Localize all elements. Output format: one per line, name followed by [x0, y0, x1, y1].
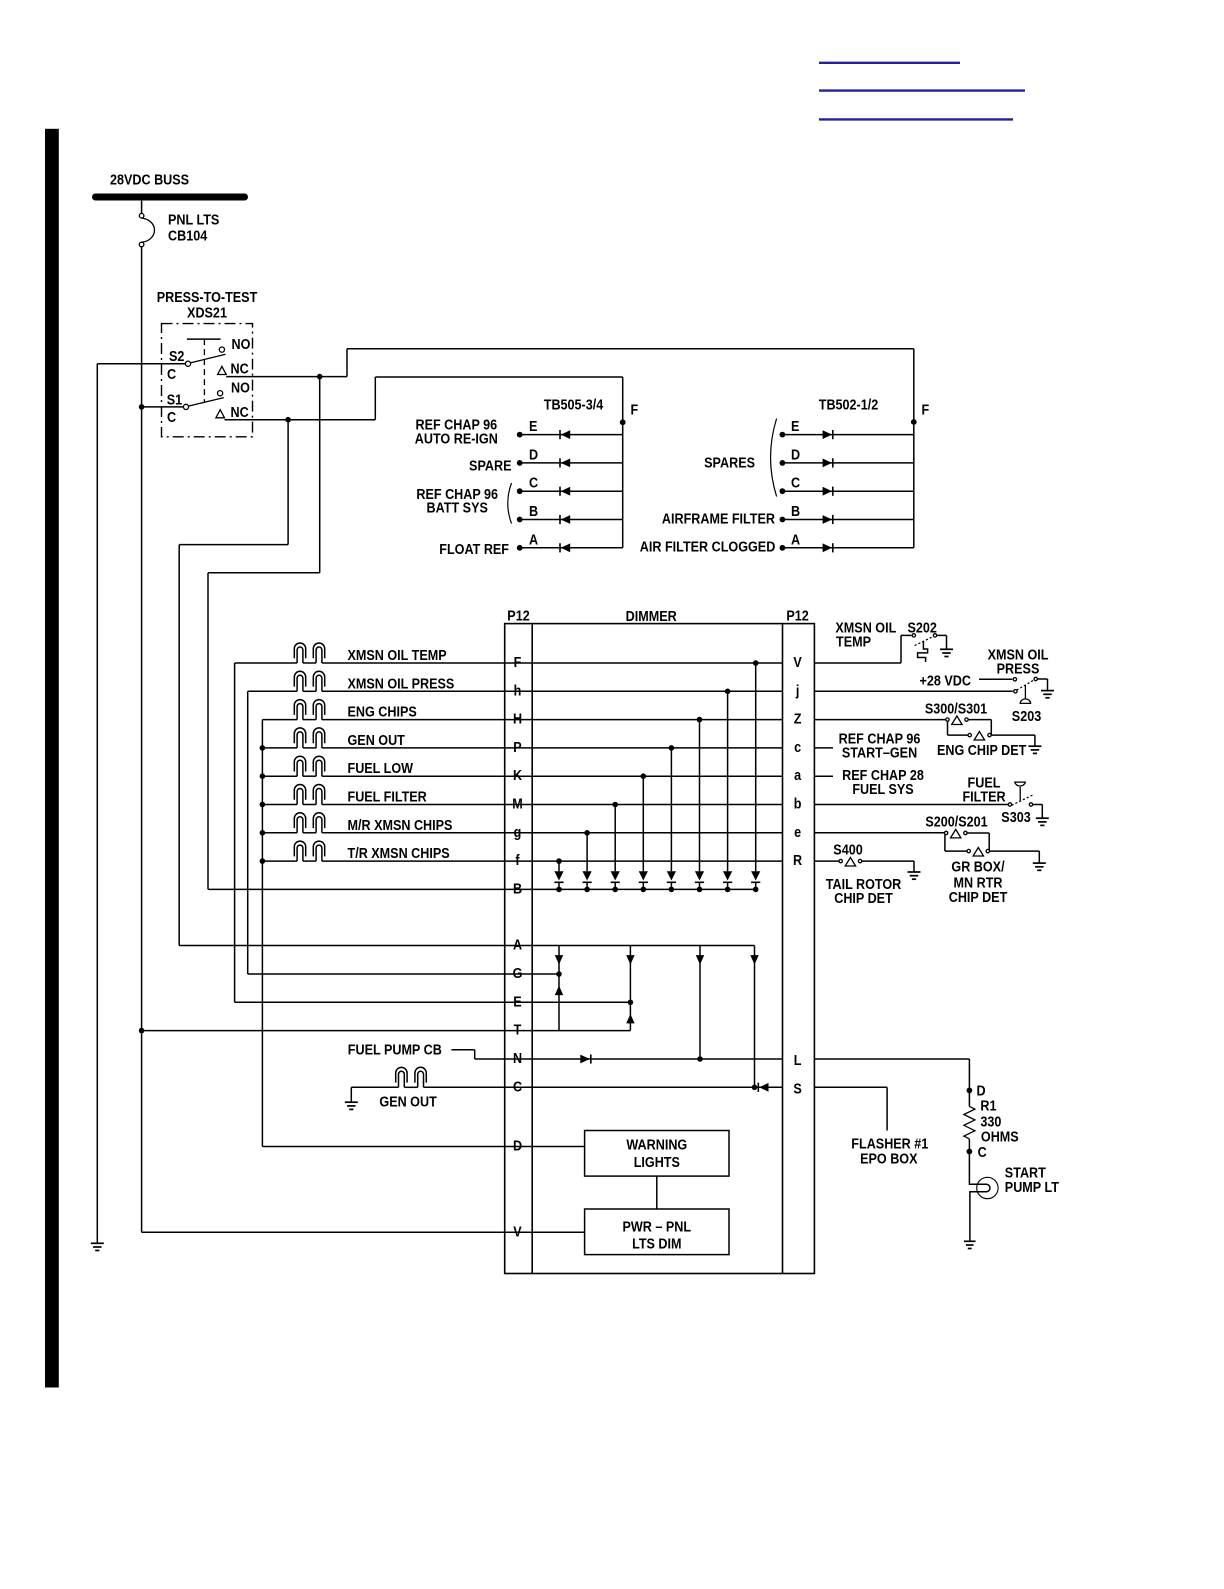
diode CR (TB505 row E): [560, 430, 570, 439]
svg-text:P12: P12: [786, 606, 809, 623]
svg-text:FUEL FILTER: FUEL FILTER: [348, 787, 427, 804]
wire: S2 common from left bus: [97, 363, 185, 365]
terminal C (TB502): [780, 474, 914, 494]
diode CR (row N): [580, 1054, 591, 1063]
mechanical link bar: [187, 338, 221, 340]
svg-text:GEN OUT: GEN OUT: [348, 731, 406, 748]
svg-text:D: D: [791, 445, 800, 462]
svg-text:CB104: CB104: [168, 227, 207, 244]
svg-text:SPARES: SPARES: [704, 453, 755, 470]
svg-text:WARNING: WARNING: [626, 1135, 687, 1152]
wire: pin b to S303: [814, 804, 1008, 806]
svg-text:+28 VDC: +28 VDC: [920, 671, 971, 688]
wire: CB104 down to S1 common, T pin and V pin: [139, 247, 145, 1233]
svg-text:F: F: [514, 653, 522, 670]
ground (GEN OUT): [345, 1087, 358, 1109]
wire+ground (S400): [862, 861, 921, 879]
indicator lamps GEN OUT: [294, 728, 324, 748]
svg-text:V: V: [793, 653, 802, 670]
svg-text:FLOAT REF: FLOAT REF: [439, 540, 509, 557]
box PWR - PNL LTS DIM: [585, 1209, 729, 1255]
svg-text:e: e: [794, 823, 801, 840]
svg-text:FUEL SYS: FUEL SYS: [852, 780, 913, 797]
label PRESS-TO-TEST XDS21: [157, 288, 258, 321]
circuit breaker CB104: [139, 201, 154, 247]
terminal D (TB502): [780, 445, 914, 465]
S2 NC contact (triangle): [218, 366, 227, 374]
svg-text:NO: NO: [231, 378, 250, 395]
svg-text:NC: NC: [231, 403, 249, 420]
brace (SPARES rows E,D,C): [771, 419, 777, 497]
wire: lamp row K (FUEL LOW): [260, 773, 783, 779]
label REF CHAP 96 START-GEN: [839, 729, 921, 760]
svg-text:GR BOX/: GR BOX/: [951, 857, 1004, 874]
diode leg from row M to bus B: [611, 802, 620, 893]
indicator lamps FUEL FILTER: [294, 785, 324, 805]
svg-text:GEN OUT: GEN OUT: [379, 1093, 437, 1110]
wire: pin a stub: [814, 775, 833, 777]
svg-text:K: K: [513, 766, 522, 783]
node C (flasher): [967, 1143, 987, 1160]
node F (TB502): [911, 400, 929, 424]
svg-text:C: C: [529, 474, 538, 491]
terminal B (TB505): [517, 502, 623, 522]
diode CR (TB505 row C): [560, 487, 570, 496]
svg-text:FILTER: FILTER: [962, 787, 1005, 804]
svg-text:C: C: [167, 365, 176, 382]
resistor R1 330 OHMS: [964, 1106, 975, 1138]
svg-text:LIGHTS: LIGHTS: [634, 1153, 680, 1170]
wire: row G: [248, 973, 559, 975]
indicator lamps XMSN OIL PRESS: [294, 671, 324, 691]
svg-text:D: D: [529, 445, 538, 462]
svg-text:S303: S303: [1001, 808, 1031, 825]
label REF CHAP 96 BATT SYS: [416, 485, 498, 516]
svg-text:f: f: [515, 851, 520, 868]
svg-text:B: B: [513, 879, 522, 896]
svg-text:S: S: [793, 1079, 801, 1096]
svg-text:NC: NC: [231, 359, 249, 376]
label REF CHAP 96 AUTO RE-IGN: [415, 415, 498, 446]
svg-text:Z: Z: [794, 710, 802, 727]
indicator lamps M/R XMSN CHIPS: [294, 813, 324, 833]
svg-text:LTS DIM: LTS DIM: [632, 1234, 681, 1251]
wire+ground (S202): [937, 635, 953, 656]
S1 NC contact (triangle): [216, 410, 225, 418]
hyperlink underline 1: [819, 62, 960, 64]
wire: S200 to junction: [967, 833, 989, 851]
wire: warning lights to pwr-pnl dim: [656, 1176, 658, 1209]
wire: row A: [179, 945, 754, 947]
svg-text:NO: NO: [232, 335, 251, 352]
svg-text:N: N: [513, 1049, 522, 1066]
svg-text:C: C: [513, 1077, 522, 1094]
terminal A (TB505): [517, 530, 623, 550]
diode CR (TB502 row B): [823, 515, 833, 524]
svg-text:FUEL LOW: FUEL LOW: [348, 759, 414, 776]
svg-text:XDS21: XDS21: [187, 303, 227, 320]
wire: lamp row F (XMSN OIL TEMP): [235, 662, 783, 664]
svg-text:FUEL PUMP CB: FUEL PUMP CB: [348, 1040, 442, 1057]
28VDC bus bar: [96, 194, 245, 201]
chip detector S301: [968, 732, 991, 741]
wire: TB502 spine: [913, 349, 915, 548]
switch S2 (upper pole): [185, 347, 225, 366]
wire: left bus down to ground: [96, 364, 98, 1243]
svg-text:C: C: [791, 474, 800, 491]
dimmer assembly box: [505, 624, 815, 1274]
svg-text:A: A: [791, 530, 800, 547]
indicator lamps GEN OUT: [396, 1067, 427, 1087]
wire: pin e to S200: [814, 832, 944, 834]
wire: lamp row h (XMSN OIL PRESS): [248, 690, 783, 692]
svg-text:S1: S1: [167, 390, 183, 407]
wire: pin S to flasher: [814, 1087, 887, 1130]
wire: S301 branch: [948, 721, 969, 735]
svg-text:ENG CHIPS: ENG CHIPS: [348, 703, 417, 720]
wire: row F to pin E link: [234, 663, 236, 1002]
node F (TB505): [620, 400, 638, 425]
indicator lamps ENG CHIPS: [294, 700, 324, 720]
wire: S300 to junction: [968, 720, 991, 736]
diode leg from row H to bus B: [695, 717, 704, 892]
svg-text:AUTO RE-IGN: AUTO RE-IGN: [415, 429, 498, 446]
wire: row V: [142, 1231, 585, 1233]
svg-text:F: F: [631, 400, 639, 417]
diode leg from row g to bus B: [583, 830, 592, 892]
svg-text:PUMP LT: PUMP LT: [1005, 1178, 1060, 1195]
label GR BOX/ MN RTR CHIP DET: [949, 857, 1008, 905]
svg-text:XMSN OIL TEMP: XMSN OIL TEMP: [348, 646, 447, 663]
svg-text:g: g: [514, 823, 522, 840]
svg-text:DIMMER: DIMMER: [626, 607, 677, 624]
svg-text:M/R XMSN CHIPS: M/R XMSN CHIPS: [348, 816, 453, 833]
svg-text:TB505-3/4: TB505-3/4: [544, 395, 604, 412]
svg-text:TB502-1/2: TB502-1/2: [819, 395, 879, 412]
indicator lamps T/R XMSN CHIPS: [294, 841, 324, 861]
indicator lamps XMSN OIL TEMP: [294, 643, 324, 663]
indicator lamps FUEL LOW: [294, 756, 324, 776]
terminal E (TB505): [517, 417, 623, 437]
svg-text:V: V: [513, 1222, 522, 1239]
switch S303 (pressure): [1008, 782, 1033, 806]
svg-text:PNL LTS: PNL LTS: [168, 210, 219, 227]
diode CR (TB502 row C): [823, 487, 833, 496]
chip detector S200: [944, 829, 967, 838]
wire+ground (GR BOX CHIP DET): [990, 851, 1046, 870]
svg-text:PWR – PNL: PWR – PNL: [623, 1217, 692, 1234]
svg-text:CHIP DET: CHIP DET: [949, 888, 1008, 905]
svg-text:S200/S201: S200/S201: [925, 812, 988, 829]
ground (start pump light): [964, 1240, 976, 1242]
svg-text:H: H: [513, 710, 522, 727]
diode leg from row P to bus B: [667, 745, 676, 892]
svg-text:E: E: [529, 417, 537, 434]
svg-text:T/R XMSN CHIPS: T/R XMSN CHIPS: [348, 844, 450, 861]
svg-text:TEMP: TEMP: [836, 632, 871, 649]
svg-text:T: T: [514, 1021, 522, 1038]
svg-text:A: A: [529, 530, 538, 547]
wire: row C (GEN OUT to pin S): [351, 1086, 782, 1088]
wire: row E: [235, 1001, 631, 1003]
label FUEL FILTER (S303): [962, 773, 1005, 804]
diode CR (row C): [758, 1083, 768, 1092]
wire: S1 NC branch down to dimmer pin A: [179, 420, 288, 946]
svg-text:PRESS: PRESS: [997, 659, 1040, 676]
wire: pin V to S202: [814, 635, 911, 663]
svg-text:BATT SYS: BATT SYS: [427, 498, 488, 515]
box WARNING LIGHTS: [585, 1131, 729, 1177]
wire: pin R to S400: [814, 860, 839, 862]
wire: lamp row M (FUEL FILTER): [260, 802, 783, 808]
brace (BATT SYS rows C,B): [508, 483, 512, 524]
chip detector S400: [839, 858, 862, 867]
ground (left bus): [91, 1242, 104, 1244]
wire: lamp row P (GEN OUT): [260, 745, 783, 751]
diode CR (TB505 row B): [560, 515, 570, 524]
wire: S2 NC to TB502 F: [226, 349, 914, 380]
diode CR (TB502 row E): [823, 430, 833, 439]
internal leg A-N (with arrow): [696, 946, 704, 1062]
chip detector S300: [946, 716, 968, 725]
svg-text:S202: S202: [908, 618, 938, 635]
svg-text:S300/S301: S300/S301: [925, 700, 988, 717]
svg-text:h: h: [514, 681, 522, 698]
lamp START PUMP LT: [977, 1177, 998, 1198]
svg-text:28VDC BUSS: 28VDC BUSS: [110, 170, 189, 187]
wire: pin j to S203: [814, 690, 1012, 692]
svg-text:S400: S400: [833, 841, 863, 858]
wire: row h to pin G link: [247, 691, 249, 974]
wire: pin Z to S300: [814, 719, 946, 721]
label XMSN OIL PRESS (S203): [988, 645, 1049, 676]
wire: lamp row g (M/R XMSN CHIPS): [260, 830, 783, 836]
chip detector S201: [967, 848, 990, 857]
wire: R1 to start pump light: [969, 1139, 990, 1241]
wire: S201 branch: [945, 835, 967, 851]
svg-text:START–GEN: START–GEN: [842, 743, 917, 760]
svg-text:C: C: [978, 1143, 987, 1160]
diode leg from row F to bus B: [751, 660, 760, 892]
terminal C (TB505): [517, 474, 623, 494]
node D (flasher): [967, 1081, 986, 1098]
svg-text:XMSN OIL PRESS: XMSN OIL PRESS: [348, 674, 455, 691]
svg-text:D: D: [513, 1136, 522, 1153]
label FLASHER #1 EPO BOX: [851, 1134, 928, 1166]
wire: S2 NC branch down to dimmer row B: [208, 377, 320, 890]
internal leg A-G-T (with arrows): [555, 946, 563, 1031]
change bar (left margin): [45, 129, 59, 1388]
wire+ground (ENG CHIP DET): [991, 735, 1041, 753]
svg-text:S2: S2: [169, 347, 185, 364]
svg-text:B: B: [791, 502, 800, 519]
wire: pin L to flasher circuit: [814, 1059, 969, 1106]
connector P12 right column: [782, 624, 784, 1274]
svg-text:E: E: [513, 992, 521, 1009]
wire: row D to warning lights: [262, 1146, 584, 1148]
diode leg from row f to bus B: [554, 858, 563, 892]
diode leg from row h to bus B: [723, 689, 732, 893]
terminal E (TB502): [780, 417, 914, 437]
svg-text:AIRFRAME FILTER: AIRFRAME FILTER: [662, 509, 775, 526]
svg-text:CHIP DET: CHIP DET: [834, 889, 893, 906]
wire: lamp row H (ENG CHIPS): [262, 719, 782, 721]
hyperlink underline 2: [819, 89, 1025, 91]
terminal A (TB502): [780, 530, 914, 550]
svg-text:B: B: [529, 502, 538, 519]
switch S203 (pressure): [1013, 677, 1037, 703]
wire: S1 common from CB104 line: [142, 406, 184, 408]
wire+ground (S303): [1033, 805, 1049, 826]
svg-text:j: j: [795, 681, 799, 698]
switch XDS21 enclosure (dash-dot): [162, 324, 253, 437]
label XMSN OIL TEMP (S202): [835, 618, 896, 650]
svg-text:EPO BOX: EPO BOX: [860, 1149, 918, 1166]
svg-text:b: b: [794, 794, 802, 811]
label START PUMP LT: [1005, 1164, 1060, 1196]
svg-text:ENG CHIP DET: ENG CHIP DET: [937, 741, 1027, 758]
svg-text:G: G: [513, 964, 523, 981]
diode CR (TB505 row A): [560, 543, 570, 552]
svg-text:M: M: [512, 794, 523, 811]
svg-text:A: A: [513, 935, 522, 952]
mechanical link (dashed): [203, 339, 205, 402]
wire: lamp row f (T/R XMSN CHIPS): [260, 858, 783, 864]
svg-text:P: P: [513, 738, 521, 755]
diode CR (TB502 row D): [823, 458, 833, 467]
wire: FUEL PUMP CB to pin N: [451, 1050, 782, 1059]
wire: bus row B: [208, 888, 756, 890]
svg-text:R: R: [793, 851, 802, 868]
svg-text:SPARE: SPARE: [469, 456, 511, 473]
diode CR (TB505 row D): [560, 458, 570, 467]
label REF CHAP 28 FUEL SYS: [842, 766, 924, 797]
svg-text:L: L: [794, 1051, 802, 1068]
wire: pin c stub: [814, 747, 833, 749]
connector P12 left column: [531, 624, 533, 1274]
svg-text:E: E: [791, 417, 799, 434]
wire: TB505 spine: [622, 377, 624, 548]
terminal B (TB502): [780, 502, 914, 522]
svg-text:S203: S203: [1012, 707, 1042, 724]
svg-text:P12: P12: [507, 606, 530, 623]
wire+ground (S203): [1037, 679, 1054, 698]
internal leg A-C (with arrow): [750, 946, 758, 1091]
terminal D (TB505): [517, 445, 623, 465]
label PNL LTS CB104: [168, 210, 219, 244]
wire: +28 VDC contact: [979, 678, 1012, 680]
internal leg A-E-T (with arrows): [626, 946, 634, 1031]
svg-text:a: a: [794, 766, 801, 783]
label TAIL ROTOR CHIP DET: [826, 875, 902, 906]
wire: row H to pin D link: [261, 720, 263, 1147]
wire: row T: [142, 1030, 631, 1032]
svg-text:C: C: [167, 408, 176, 425]
wire: S1 NC to TB505 F: [225, 377, 623, 423]
hyperlink underline 3: [819, 118, 1013, 120]
switch S1 (lower pole): [183, 391, 223, 410]
diode CR (TB502 row A): [823, 543, 833, 552]
label R1 330 OHMS: [980, 1097, 1018, 1145]
diode leg from row K to bus B: [639, 773, 648, 892]
svg-text:F: F: [922, 400, 930, 417]
svg-text:c: c: [794, 738, 801, 755]
switch S202 (thermal): [912, 634, 937, 662]
svg-text:AIR FILTER CLOGGED: AIR FILTER CLOGGED: [640, 537, 775, 554]
